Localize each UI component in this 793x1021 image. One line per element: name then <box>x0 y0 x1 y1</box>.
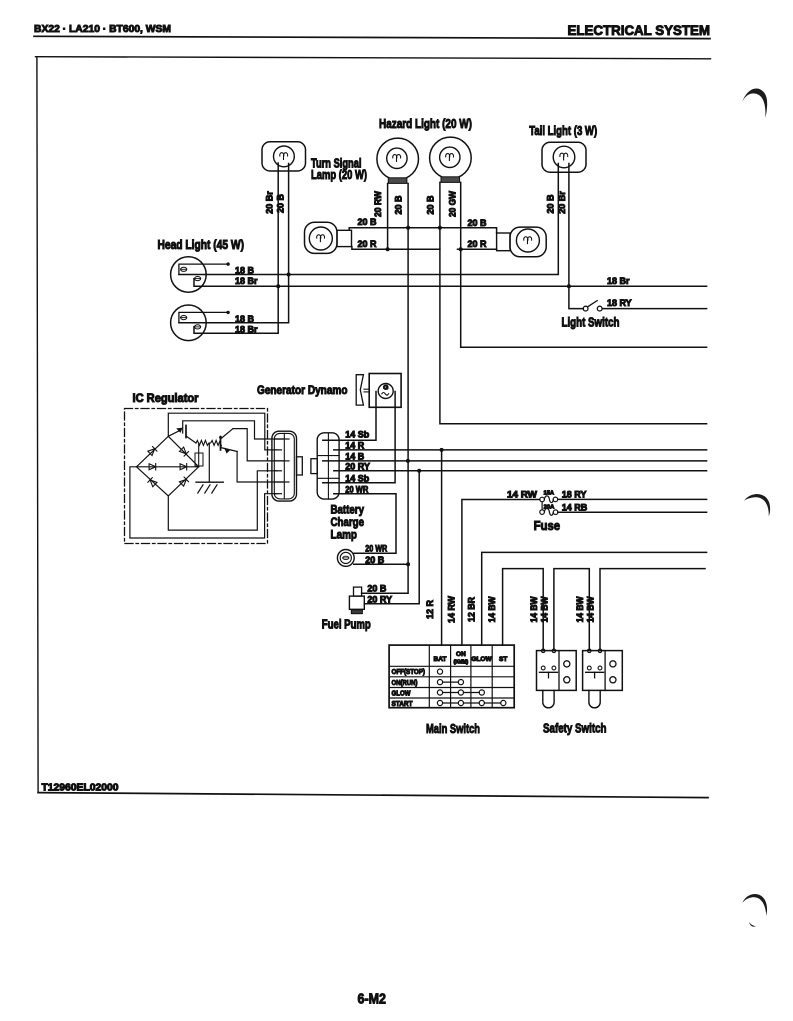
label IC Regulator <box>133 393 199 405</box>
svg-text:18 RY: 18 RY <box>562 490 587 500</box>
label Generator Dynamo <box>257 385 348 397</box>
label 18 RY <box>607 298 632 308</box>
svg-text:Safety Switch: Safety Switch <box>543 720 607 735</box>
wire 14 B bus <box>323 460 707 462</box>
svg-text:12 BR: 12 BR <box>467 597 477 622</box>
wire 20 R left segment <box>352 247 440 250</box>
svg-text:20 B: 20 B <box>275 193 285 213</box>
label 20 RW vertical <box>373 191 383 217</box>
svg-text:12 R: 12 R <box>425 599 435 619</box>
label 14 Sb second <box>345 473 370 483</box>
U1 wire pin1 <box>183 421 283 439</box>
label 20 B left <box>358 217 378 227</box>
wire 12 R to main switch BAT <box>441 450 443 645</box>
diode D3 <box>149 464 156 470</box>
wire 14 Sb generator left <box>323 392 376 441</box>
head light E6 <box>171 305 230 341</box>
label 14 R <box>345 440 365 450</box>
svg-text:14 RW: 14 RW <box>447 596 457 623</box>
svg-text:14 BW: 14 BW <box>529 596 539 622</box>
node junction 20B-18B <box>287 273 291 277</box>
page number <box>358 992 387 1008</box>
svg-text:18 Br: 18 Br <box>235 276 258 286</box>
svg-text:20 B: 20 B <box>365 555 385 565</box>
diode D4 <box>180 464 187 470</box>
svg-text:20 Br: 20 Br <box>557 191 567 214</box>
label 12 R vertical <box>425 599 435 619</box>
label Tail Light (3 W) <box>529 124 597 138</box>
main switch contacts GLOW row <box>437 690 484 695</box>
U1 wire pin4 <box>168 471 277 530</box>
node junction 14B <box>406 459 410 463</box>
svg-text:BX22 · LA210 · BT600, WSM: BX22 · LA210 · BT600, WSM <box>34 23 171 35</box>
svg-text:20 WR: 20 WR <box>365 544 387 554</box>
U1 wire pin5 <box>237 452 283 483</box>
label 14 BW s2 left <box>529 596 539 622</box>
label 18 Br head light 2 <box>235 324 258 334</box>
svg-text:BAT: BAT <box>434 656 447 663</box>
label Main Switch <box>426 721 480 736</box>
wire 14 BW between safety switches <box>554 569 589 651</box>
svg-text:20 B: 20 B <box>358 217 378 227</box>
svg-text:20 GW: 20 GW <box>447 191 457 217</box>
wire 12 BR main switch GLOW to frame edge <box>482 552 707 645</box>
label 20 B vertical <box>275 193 285 213</box>
wire 14 RB fuse output <box>558 511 707 513</box>
label 20 B vertical hazard E3 <box>426 195 436 215</box>
svg-text:6-M2: 6-M2 <box>358 992 387 1008</box>
wire 20 RW hazard left lamp <box>387 183 389 249</box>
svg-text:START: START <box>392 701 414 708</box>
svg-text:20 RY: 20 RY <box>367 594 392 604</box>
IC regulator U1 enclosure <box>125 409 268 544</box>
label 20 B lamp <box>365 555 385 565</box>
svg-text:18 B: 18 B <box>235 314 255 324</box>
label 14 Sb <box>345 430 370 440</box>
wire 20 Br from turn signal to 18 Br junction and head light 2 <box>194 163 278 333</box>
svg-text:Tail Light (3 W): Tail Light (3 W) <box>529 124 597 138</box>
page header model text <box>34 23 171 35</box>
battery charge lamp L1 <box>337 550 354 567</box>
label Turn Signal Lamp (20 W) <box>311 156 367 182</box>
label 20 B pump <box>367 584 387 594</box>
connector J2 <box>311 433 339 499</box>
wire 20 B hazard lamp E3 down and right to frame edge <box>440 182 707 423</box>
node junction 20RY <box>417 469 421 473</box>
svg-text:20 RY: 20 RY <box>345 461 370 471</box>
main switch column headers <box>434 651 508 666</box>
svg-text:20 B: 20 B <box>545 194 555 214</box>
label 18 B head light 2 <box>235 314 255 324</box>
wire 20 Br tail light down to light switch <box>569 164 583 309</box>
wire 20 B battery charge lamp <box>354 563 408 565</box>
svg-text:(IG/M): (IG/M) <box>454 660 469 666</box>
label 14 BW vertical <box>487 596 497 622</box>
svg-text:20 B: 20 B <box>367 584 387 594</box>
svg-text:IC Regulator: IC Regulator <box>133 393 199 405</box>
label 18 Br right <box>607 276 630 286</box>
label 12 BR vertical <box>467 597 477 622</box>
side lamp E8 <box>497 227 547 257</box>
svg-text:14 RB: 14 RB <box>562 502 588 512</box>
svg-text:G: G <box>383 385 388 392</box>
svg-text:20 R: 20 R <box>468 239 488 249</box>
svg-text:14 RW: 14 RW <box>507 490 538 500</box>
label 20 R left <box>358 239 378 249</box>
svg-text:14 BW: 14 BW <box>586 596 596 622</box>
connector J1 <box>272 431 302 501</box>
label 20 RY <box>345 461 370 471</box>
svg-text:20A: 20A <box>544 504 555 510</box>
label 14 RB <box>562 502 588 512</box>
transistor Q2 <box>219 429 237 453</box>
ground symbol <box>196 443 223 493</box>
node junction hazard E2 20RW-20R <box>386 247 390 251</box>
wire 20 GW hazard lamp E3 down and right to frame edge <box>461 182 707 347</box>
main switch contacts ON row <box>437 680 463 685</box>
node junction hazard E3 20B <box>438 226 442 230</box>
wire 20 B hazard lamp E2 down to fuel pump branch <box>362 183 409 593</box>
wire 20 R right segment <box>458 248 497 250</box>
svg-text:18 B: 18 B <box>235 266 255 276</box>
svg-text:Lamp (20 W): Lamp (20 W) <box>311 168 367 182</box>
svg-text:20 B: 20 B <box>426 195 436 215</box>
svg-text:20 RW: 20 RW <box>373 191 383 217</box>
bridge rectifier diamond <box>137 436 199 496</box>
tail lamp E4 <box>542 142 586 172</box>
side lamp E7 <box>305 222 352 253</box>
diode D6 <box>179 477 188 486</box>
header rule <box>34 36 710 38</box>
light switch S1 <box>583 301 602 311</box>
svg-text:20 B: 20 B <box>394 195 404 215</box>
svg-text:ST: ST <box>499 656 507 663</box>
label 18 RY fuse <box>562 490 587 500</box>
label Hazard Light (20 W) <box>379 117 472 131</box>
node junction 20Br-18Br <box>276 284 280 288</box>
label Fuel Pump <box>322 617 371 631</box>
svg-text:T12960EL02000: T12960EL02000 <box>42 783 119 794</box>
label 18 B head light 1 <box>235 266 255 276</box>
wire 14 BW main switch ST to safety switch S2 <box>503 569 544 651</box>
wire 20 B from turn signal to 18 B junction and head light 2 <box>179 164 289 323</box>
wire 14 R bus <box>334 449 707 451</box>
svg-text:ON: ON <box>456 651 466 658</box>
wire 14 BW safety switch S3 output to frame edge <box>600 569 705 651</box>
fuel pump M1 <box>349 587 364 614</box>
node junction hazard E2 20B <box>406 226 410 230</box>
U1 wire pin3 <box>233 429 283 461</box>
hazard lamp E3 <box>430 137 472 182</box>
svg-text:18 RY: 18 RY <box>607 298 632 308</box>
wire 20 RY fuel pump <box>364 471 419 604</box>
label 14 RW vertical <box>447 596 457 623</box>
svg-text:OFF(STOP): OFF(STOP) <box>392 669 426 676</box>
safety switch S2 <box>537 649 577 708</box>
hazard lamp E2 <box>377 138 419 183</box>
wire 14 RW main switch ON to fuse <box>462 500 540 646</box>
label 20 B vertical hazard E2 <box>394 195 404 215</box>
node junction 12R-14R <box>440 448 444 452</box>
wire 20 B tail light / 18 B line to head light 1 <box>179 164 558 275</box>
main switch row labels <box>392 669 426 708</box>
main switch SW1 table <box>389 645 514 708</box>
main switch contacts START row <box>437 700 506 705</box>
svg-text:GLOW: GLOW <box>392 690 411 697</box>
svg-text:18 Br: 18 Br <box>607 276 630 286</box>
U1 wire pin6 <box>130 467 277 538</box>
svg-text:Hazard Light (20 W): Hazard Light (20 W) <box>379 117 472 131</box>
label Fuse <box>534 519 561 533</box>
svg-text:Fuse: Fuse <box>534 519 561 533</box>
main switch contacts OFF row <box>437 669 442 674</box>
svg-text:14 BW: 14 BW <box>487 596 497 622</box>
generator dynamo G1 <box>356 374 401 408</box>
svg-text:Head Light (45 W): Head Light (45 W) <box>158 238 245 252</box>
wire 14 Sb generator right <box>323 392 395 483</box>
svg-text:14 BW: 14 BW <box>575 596 585 622</box>
fuse F2 20A <box>540 502 558 515</box>
safety switch S3 <box>583 649 623 708</box>
diode D2 <box>179 447 188 456</box>
label 14 RW <box>507 490 538 500</box>
label 20 WR <box>345 484 368 494</box>
svg-text:Light Switch: Light Switch <box>562 316 620 330</box>
label Light Switch <box>562 316 620 330</box>
label 20 B right <box>468 218 488 228</box>
resistor R1 R2 zigzag <box>196 440 222 446</box>
diode D5 <box>148 478 157 487</box>
transistor Q1 <box>168 426 196 444</box>
label 14 BW s3 right <box>586 596 596 622</box>
wire 20 B between side lamps <box>349 228 496 233</box>
wire 18 RY from light switch to frame edge <box>602 308 706 310</box>
svg-text:GLOW: GLOW <box>471 656 492 663</box>
node junction lamp 20B <box>406 562 410 566</box>
svg-text:Lamp: Lamp <box>331 527 358 541</box>
label Head Light (45 W) <box>158 238 245 252</box>
turn signal lamp E1 <box>262 142 306 171</box>
label 14 BW s2 right <box>539 596 549 622</box>
svg-text:14 Sb: 14 Sb <box>345 430 370 440</box>
label 20 R right <box>468 239 488 249</box>
node junction hazard E3 20GW-20R <box>459 247 463 251</box>
label 20 RY pump <box>367 594 392 604</box>
label Battery Charge Lamp <box>331 503 365 542</box>
figure number label <box>42 783 119 794</box>
fuse F1 15A <box>540 490 558 502</box>
page header section title ELECTRICAL SYSTEM <box>568 22 711 38</box>
label Safety Switch <box>543 720 607 735</box>
label 20 Br vertical tail <box>557 191 567 214</box>
svg-text:ELECTRICAL SYSTEM: ELECTRICAL SYSTEM <box>568 22 711 38</box>
node junction tail 20Br-18Br <box>567 284 571 288</box>
small box at bridge right vertex <box>195 443 203 467</box>
head light E5 <box>171 257 230 293</box>
wire 18 RY fuse output <box>558 498 707 500</box>
label 14 BW s3 left <box>575 596 585 622</box>
label 14 B <box>345 451 365 461</box>
svg-text:ON(RUN): ON(RUN) <box>392 680 418 687</box>
svg-text:15A: 15A <box>543 490 554 496</box>
svg-text:14 Sb: 14 Sb <box>345 473 370 483</box>
wire 18 Br line from head light 1 to frame edge <box>194 279 707 287</box>
wire 20 WR to battery charge lamp <box>334 494 396 553</box>
label 20 B vertical tail <box>545 194 555 214</box>
wire 20 RY bus <box>334 470 707 472</box>
svg-text:20 Br: 20 Br <box>265 191 275 214</box>
svg-text:Generator Dynamo: Generator Dynamo <box>257 385 348 397</box>
svg-text:14 BW: 14 BW <box>539 596 549 622</box>
svg-text:20 WR: 20 WR <box>345 484 368 494</box>
svg-text:20 B: 20 B <box>468 218 488 228</box>
label 20 GW vertical <box>447 191 457 217</box>
svg-text:18 Br: 18 Br <box>235 324 258 334</box>
svg-text:Main Switch: Main Switch <box>426 721 480 736</box>
svg-text:20 R: 20 R <box>358 239 378 249</box>
svg-text:14 B: 14 B <box>345 451 365 461</box>
U1 wire pin2 <box>168 413 277 450</box>
label 20 Br vertical <box>265 191 275 214</box>
diode D1 <box>148 446 157 455</box>
label 20 WR lamp <box>365 544 387 554</box>
svg-text:14 R: 14 R <box>345 440 365 450</box>
svg-text:Fuel Pump: Fuel Pump <box>322 617 371 631</box>
label 18 Br head light 1 <box>235 276 258 286</box>
